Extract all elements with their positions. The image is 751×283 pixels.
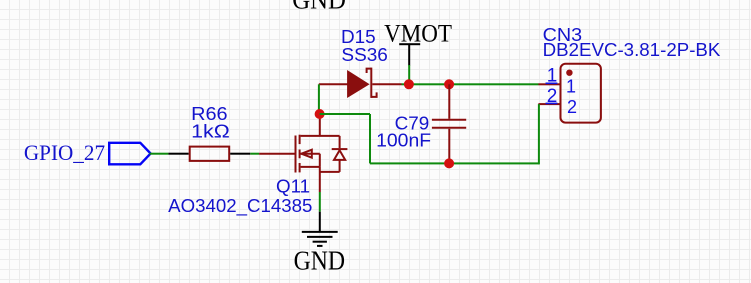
svg-text:GND: GND: [294, 245, 346, 275]
capacitor C79 value label 100nF: [376, 131, 431, 151]
connector CN3 pin 2 name label (inside): [567, 97, 577, 117]
wire resistor to MOSFET gate: [250, 153, 259, 155]
resistor R66 pin 1: [168, 153, 188, 155]
body diode to source: [320, 171, 340, 173]
drain vertical: [319, 114, 321, 136]
connector CN3 value label DB2EVC-3.81-2P-BK: [543, 40, 721, 60]
junction dot (VMOT / diode cathode): [404, 79, 414, 89]
body diode triangle: [334, 150, 345, 160]
ground GND (top, text partially cut off): [292, 0, 346, 15]
body diode bottom lead: [339, 160, 341, 172]
connector CN3 pin-1 marker dot: [566, 70, 572, 76]
channel segment middle: [299, 150, 301, 159]
resistor R66 value label 1kΩ: [191, 122, 230, 142]
capacitor C79: [432, 84, 466, 163]
body arrow head: [301, 150, 311, 158]
wire port to resistor R66: [150, 153, 169, 155]
capacitor C79 designator label: [395, 114, 430, 134]
channel segment bottom: [299, 163, 301, 172]
svg-text:GND: GND: [292, 0, 346, 15]
svg-text:2: 2: [567, 97, 577, 117]
diode D15 (Schottky): [319, 68, 402, 98]
ground GND (bottom): [302, 212, 338, 246]
power VMOT: [384, 20, 452, 65]
connector CN3 pin 1 stub: [538, 83, 560, 85]
resistor R66: [190, 147, 230, 161]
junction dot (MOSFET drain): [315, 109, 325, 119]
wire bottom horizontal to capacitor bottom: [370, 162, 539, 164]
resistor R66 designator label: [191, 104, 228, 124]
transistor Q11 value label AO3402_C14385: [168, 196, 312, 217]
connector CN3 pin 2 number label: [546, 86, 558, 107]
junction dot (capacitor bottom): [444, 158, 454, 168]
body diode top lead: [339, 136, 341, 148]
connector CN3 designator label: [543, 25, 583, 45]
svg-text:1kΩ: 1kΩ: [191, 122, 230, 142]
gate bar: [295, 136, 297, 173]
port GPIO_27 symbol: [109, 143, 150, 165]
connector CN3 body: [561, 64, 601, 123]
svg-text:100nF: 100nF: [376, 131, 431, 151]
junction dot (capacitor top): [444, 79, 454, 89]
svg-text:Q11: Q11: [276, 177, 310, 197]
port GPIO_27 label: [24, 140, 105, 165]
svg-text:GPIO_27: GPIO_27: [24, 140, 105, 165]
wire MOSFET source down: [319, 192, 321, 212]
wire diode cathode to VMOT junction and to capacitor and connector pin 1: [402, 83, 539, 85]
body diode cathode bar: [332, 148, 348, 150]
ground GND text (bottom): [294, 245, 346, 275]
wire drain junction to the right: [320, 113, 370, 115]
source vertical: [319, 167, 321, 192]
body vertical to source: [319, 154, 321, 167]
transistor Q11 (N-MOSFET with body diode): [259, 114, 347, 192]
transistor Q11 designator label: [276, 177, 310, 197]
drain stub: [301, 135, 340, 137]
wire VMOT to junction: [408, 65, 410, 84]
svg-text:SS36: SS36: [341, 45, 388, 65]
svg-text:DB2EVC-3.81-2P-BK: DB2EVC-3.81-2P-BK: [543, 40, 721, 60]
diode D15 value label SS36: [341, 45, 388, 65]
wire drain junction up to diode anode: [318, 84, 320, 114]
wire connector pin 2 down: [538, 104, 540, 164]
connector CN3 pin 1 name label (inside): [566, 77, 576, 97]
channel segment top: [299, 135, 301, 144]
svg-text:1: 1: [566, 77, 576, 97]
resistor R66 pin 2: [230, 153, 250, 155]
connector CN3 pin 2 stub: [538, 103, 560, 105]
wire vertical down at x=370: [369, 114, 371, 163]
source stub: [301, 166, 320, 168]
gate pin: [259, 153, 295, 155]
diode D15 designator label: [341, 27, 376, 47]
svg-text:AO3402_C14385: AO3402_C14385: [168, 196, 312, 217]
body arrow shaft: [301, 153, 320, 155]
connector CN3 pin 1 number label: [546, 66, 558, 87]
